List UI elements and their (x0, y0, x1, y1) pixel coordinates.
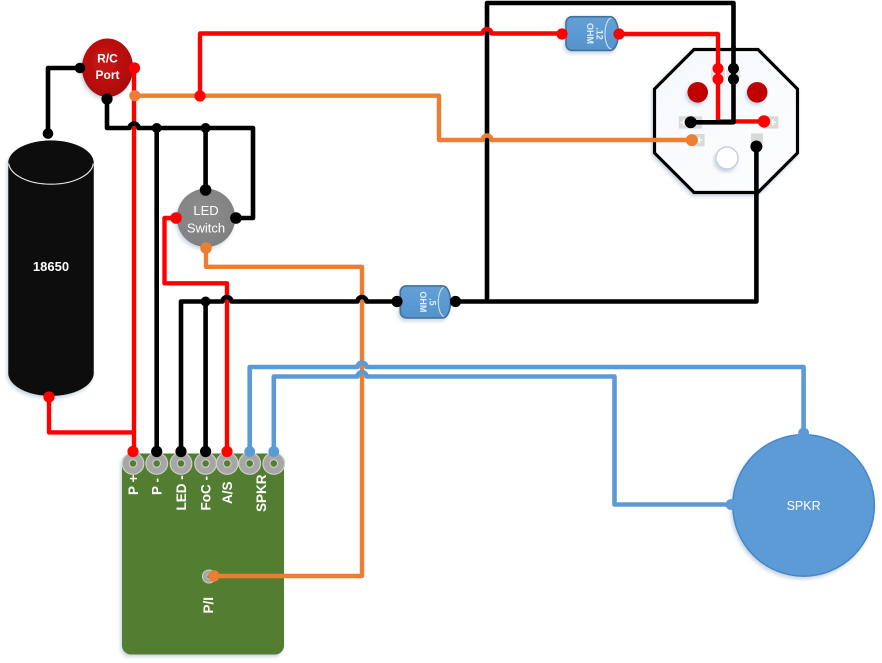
wire black frame: junction 487,301 up across top (black) (487, 3, 734, 302)
svg-text:P +: P + (126, 474, 141, 495)
svg-text:OHM: OHM (585, 23, 595, 44)
wire LED- pin to resistor R2 (black, hops at 227 and 362) (181, 297, 397, 452)
svg-text:18650: 18650 (33, 259, 69, 274)
wire junction to LED switch top (black) (203, 128, 208, 190)
wire FoC- pin up to junction (black) (203, 302, 208, 452)
wire node on orange to resistor R1 (red, hop at 487) (200, 29, 562, 96)
node LED switch right terminal (230, 212, 242, 224)
node P/I pin (208, 570, 219, 581)
node FoC- pin (200, 446, 211, 457)
node speaker top terminal (798, 428, 809, 439)
wire red stub to right pad (716, 119, 764, 123)
node orange tap on red vertical (129, 90, 140, 101)
node speaker left terminal (726, 499, 737, 510)
node SPKR pin2 (268, 446, 279, 457)
pin ring LED- (170, 453, 192, 475)
node LED module right pad terminal (758, 115, 770, 127)
node LED switch top terminal (200, 184, 212, 196)
node resistor R1 left lead (556, 28, 567, 39)
pad (octagon top, black feed) (727, 70, 741, 79)
node LED switch bottom terminal (200, 242, 212, 254)
node black feed-through lower (728, 74, 739, 85)
pad LED+ left (679, 116, 702, 128)
wire SPKR pin2 to speaker left (blue, hop at 362) (274, 372, 731, 505)
pin ring SPKR2 (263, 453, 285, 475)
node red junction on orange wire (194, 90, 205, 101)
node P+ pin (127, 446, 138, 457)
node black feed-through upper (728, 63, 739, 74)
svg-text:Port: Port (96, 68, 120, 82)
pad LED+ right (763, 116, 778, 128)
wire black inner L to LED module left pad (over red) (691, 46, 734, 122)
LED D2 (747, 82, 768, 103)
node P- pin (151, 446, 162, 457)
svg-text:.12: .12 (595, 27, 605, 40)
button lens (white circle) (716, 147, 738, 169)
node SPKR pin1 (244, 446, 255, 457)
wire battery- joining red vertical (red) (49, 397, 134, 432)
node red feed-through lower (713, 74, 724, 85)
wire red-vertical node to LED module lower-left pad (orange, hop at 487) (135, 96, 692, 140)
R/C Port body (82, 39, 133, 98)
sound board body (122, 454, 284, 655)
svg-text:LED -: LED - (174, 475, 189, 510)
svg-text:Switch: Switch (187, 221, 225, 236)
pad lower-left (orange feed) (694, 134, 704, 146)
node R/C right terminal (129, 62, 140, 73)
pin ring P/I (203, 570, 216, 583)
node LED- pin (175, 446, 186, 457)
wire resistor R1 to LED module right pad (red) (619, 34, 718, 121)
svg-text:P -: P - (150, 478, 165, 495)
node LED module lower-left pad terminal (686, 134, 698, 146)
wire LED switch left to A/S pin (red) (165, 218, 228, 452)
node A/S pin (221, 446, 232, 457)
node red feed-through upper (713, 63, 724, 74)
LED module octagon body (655, 50, 798, 193)
node resistor R2 left lead (391, 296, 402, 307)
pin ring A/S (216, 453, 238, 475)
LED D1 (687, 82, 708, 103)
pin ring P+ (122, 453, 144, 475)
svg-text:FoC -: FoC - (199, 476, 214, 511)
battery 18650 body (8, 140, 94, 396)
pad (octagon top, red feed) (711, 70, 725, 79)
svg-text:P/I: P/I (201, 597, 216, 614)
svg-text:SPKR: SPKR (787, 499, 821, 513)
pin ring SPKR1 (239, 453, 261, 475)
svg-text:R/C: R/C (97, 52, 118, 66)
node junction FoC branch (201, 297, 211, 307)
node junction P- branch (152, 123, 162, 133)
wire resistor R2 to LED module lower-right pad (black) (456, 146, 757, 302)
node LED module left pad terminal (685, 116, 697, 128)
svg-text:OHM: OHM (418, 291, 428, 312)
node R/C bottom terminal (101, 93, 112, 104)
pad lower-right (black feed) (751, 134, 763, 143)
node battery positive terminal (43, 128, 54, 139)
svg-text:.5: .5 (428, 298, 438, 306)
svg-text:SPKR: SPKR (254, 474, 269, 512)
pin ring P- (146, 453, 168, 475)
node resistor R1 right lead (613, 28, 624, 39)
wire R/C port to P+ pin (red) (132, 68, 136, 452)
resistor R1 .12 OHM (566, 17, 618, 51)
resistor R2 .5 OHM (400, 286, 450, 318)
node battery negative terminal (43, 391, 54, 402)
node LED module lower-right pad terminal (750, 141, 762, 153)
node LED switch left terminal (170, 212, 182, 224)
LED Switch body (177, 189, 235, 247)
wire R/C bottom to LED switch right (black, hop over red at 134) (107, 99, 253, 218)
node resistor R2 right lead (450, 296, 461, 307)
svg-text:A/S: A/S (220, 481, 235, 504)
wire junction to P- pin (black) (154, 128, 159, 452)
pin ring FoC- (195, 453, 217, 475)
svg-text:LED: LED (193, 203, 218, 218)
node junction switch-top branch (201, 123, 211, 133)
node R/C left terminal (75, 63, 86, 74)
wire LED switch bottom to P/I pin (orange) (206, 248, 362, 576)
wire battery+ to R/C port (black) (48, 68, 80, 134)
speaker SPKR body (733, 435, 875, 577)
wire SPKR pin1 to speaker top (blue, hop at 362) (250, 363, 804, 452)
